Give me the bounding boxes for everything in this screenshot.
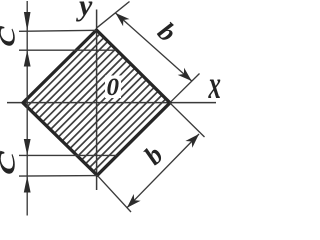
y axis xyxy=(96,10,98,191)
svg-text:x: x xyxy=(208,63,221,107)
b dimension line top-right xyxy=(116,13,192,81)
svg-text:y: y xyxy=(76,0,93,22)
bottom cut line xyxy=(19,154,117,156)
extension line from right vertex up-right xyxy=(170,74,200,103)
svg-text:0: 0 xyxy=(107,74,120,101)
white halo around centre label xyxy=(105,76,121,99)
extension line bottom vertex level xyxy=(19,175,97,178)
svg-text:c: c xyxy=(0,150,21,175)
b dimension line bottom-right xyxy=(127,134,199,208)
arrow down to top extension line xyxy=(24,12,31,31)
extension line from right vertex down-right xyxy=(170,103,205,137)
svg-text:c: c xyxy=(0,25,21,47)
x axis xyxy=(7,102,216,104)
c dimension line vertical xyxy=(26,1,28,216)
arrow up to bottom extension line xyxy=(24,176,31,192)
hatching xyxy=(0,0,220,220)
diamond section outline xyxy=(23,30,170,175)
top cut line xyxy=(19,49,117,51)
arrow up to top cut line xyxy=(24,50,31,66)
extension line from bottom vertex down-right xyxy=(97,175,131,212)
extension line from top vertex up-right xyxy=(97,2,130,28)
arrow down to bottom cut line xyxy=(24,139,31,155)
extension line top vertex level xyxy=(19,30,97,31)
